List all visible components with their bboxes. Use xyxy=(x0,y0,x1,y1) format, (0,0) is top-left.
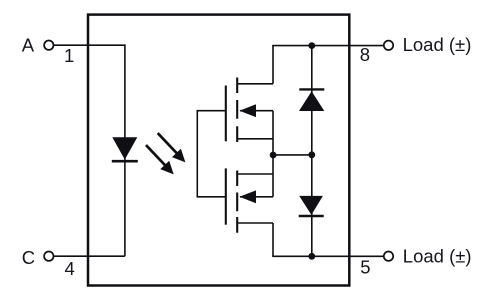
svg-text:Load (±): Load (±) xyxy=(403,34,472,55)
transistor Q2 source stub xyxy=(237,173,273,175)
pin 5 terminal circle xyxy=(384,252,393,261)
junction dot diode midpoint xyxy=(308,151,315,158)
wire common source vertical xyxy=(272,111,274,197)
transistor Q1 channel segments xyxy=(236,78,238,143)
svg-text:C: C xyxy=(22,247,35,268)
junction dot top rail xyxy=(308,42,315,49)
transistor Q2 body arrowhead xyxy=(239,190,256,203)
LED D1 cathode bar xyxy=(112,160,138,163)
wire common source to diode midpoint xyxy=(273,154,312,156)
transistor Q1 body arrowhead xyxy=(239,104,256,117)
svg-text:1: 1 xyxy=(64,45,74,66)
svg-text:A: A xyxy=(22,35,35,56)
diode D3 cathode bar xyxy=(299,215,324,217)
wire bottom rail to pin 5 xyxy=(272,255,383,257)
transistor Q2 drain stub xyxy=(237,222,273,224)
wire top rail to pin 8 xyxy=(272,45,383,47)
transistor Q1 body arrow stub xyxy=(240,110,273,112)
wire pin1 to LED anode xyxy=(54,44,125,46)
wire LED vertical branch xyxy=(124,44,126,256)
wire clamp diode branch vertical xyxy=(311,46,313,257)
diode D2 cathode bar xyxy=(299,88,324,90)
LED light emission arrow upper xyxy=(158,133,186,162)
transistor Q2 channel segments xyxy=(236,171,238,233)
wire gate bus (photoreceiver bracket) xyxy=(197,111,226,197)
junction dot common source xyxy=(270,152,277,159)
transistor Q2 lower MOSFET gate bar xyxy=(225,168,227,224)
transistor Q2 body arrow stub xyxy=(240,196,273,198)
wire pin4 to LED cathode xyxy=(54,255,125,257)
transistor Q1 source stub xyxy=(237,138,273,140)
diode D3 triangle xyxy=(299,196,323,215)
diode D2 triangle xyxy=(299,91,324,111)
svg-text:Load (±): Load (±) xyxy=(403,246,472,267)
pin C terminal circle xyxy=(44,252,53,261)
svg-text:8: 8 xyxy=(360,44,370,65)
LED D1 triangle xyxy=(112,137,137,159)
svg-text:4: 4 xyxy=(65,258,75,279)
package outline xyxy=(88,15,349,286)
pin A terminal circle xyxy=(44,41,53,50)
junction dot bottom rail xyxy=(308,253,315,260)
transistor Q1 upper MOSFET gate bar xyxy=(225,86,227,142)
LED light emission arrow lower xyxy=(146,145,174,174)
wire Q2 drain to bottom rail xyxy=(272,223,274,256)
transistor Q1 drain stub xyxy=(237,83,273,85)
svg-text:5: 5 xyxy=(360,257,370,278)
wire Q1 drain to top rail xyxy=(272,46,274,84)
pin 8 terminal circle xyxy=(384,41,393,50)
